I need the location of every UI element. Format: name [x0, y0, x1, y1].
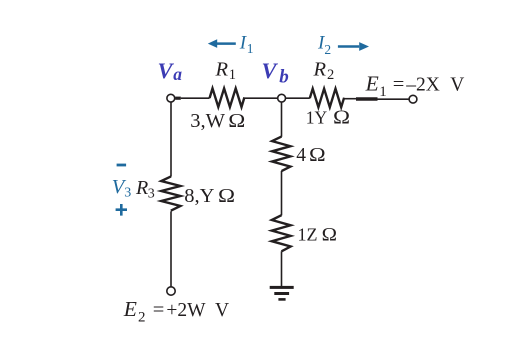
label R3 value 8,Y ohm [184, 184, 235, 207]
svg-text:V: V [262, 58, 279, 83]
svg-text:3: 3 [124, 186, 131, 201]
ground [270, 286, 294, 301]
label voltage V3 with polarity [112, 164, 131, 216]
svg-text:E: E [365, 72, 379, 96]
svg-text:8,Y: 8,Y [184, 185, 214, 207]
svg-text:1: 1 [379, 84, 387, 100]
node E2 terminal [167, 287, 175, 295]
svg-text:1: 1 [247, 41, 254, 56]
svg-text:V: V [158, 58, 175, 83]
resistor R2 [310, 59, 344, 108]
wire [244, 97, 278, 99]
label value 1Z ohm [298, 225, 337, 246]
node Vb [262, 58, 289, 102]
svg-text:3,W: 3,W [190, 110, 225, 132]
svg-text:Ω: Ω [322, 225, 337, 246]
node Va [158, 58, 183, 102]
svg-text:1: 1 [229, 67, 236, 83]
resistor R1 [210, 59, 245, 107]
svg-text:R: R [313, 59, 327, 81]
svg-text:=: = [153, 299, 165, 321]
svg-text:Ω: Ω [228, 109, 245, 132]
wire [175, 97, 209, 100]
resistor R5 (1Z ohm) [272, 215, 291, 251]
label R1 value 3,W ohm [190, 109, 245, 132]
label source E2 = +2W V [123, 297, 229, 326]
wire [281, 251, 283, 286]
svg-text:=: = [393, 74, 405, 96]
svg-text:Ω: Ω [333, 106, 350, 129]
svg-text:Ω: Ω [309, 143, 326, 166]
svg-text:3: 3 [148, 187, 155, 202]
svg-text:+2W: +2W [166, 300, 206, 321]
wire [170, 211, 172, 286]
current arrow I2 [317, 33, 369, 58]
svg-text:1Z: 1Z [298, 225, 318, 245]
svg-text:a: a [173, 64, 182, 84]
svg-text:2: 2 [138, 310, 146, 326]
svg-text:2: 2 [327, 67, 334, 83]
svg-text:V: V [450, 75, 464, 96]
svg-text:4: 4 [296, 145, 306, 166]
svg-text:R: R [135, 177, 148, 199]
wire [281, 171, 283, 215]
label R2 value 1Y ohm [306, 106, 350, 129]
wire [344, 98, 409, 101]
svg-text:V: V [215, 300, 229, 321]
wire [286, 97, 310, 99]
svg-text:b: b [279, 66, 289, 87]
wire [281, 102, 283, 137]
resistor R3 [135, 176, 180, 210]
svg-text:1Y: 1Y [306, 107, 328, 127]
svg-text:R: R [215, 59, 229, 81]
svg-text:E: E [123, 297, 137, 321]
svg-text:–2X: –2X [405, 75, 440, 96]
label value 4 ohm [296, 143, 325, 166]
label source E1 = -2X V [365, 72, 465, 101]
svg-text:2: 2 [324, 42, 331, 57]
current arrow I1 [208, 32, 254, 55]
resistor R4 (4 ohm) [272, 137, 290, 172]
node E1 terminal [409, 95, 417, 103]
svg-text:Ω: Ω [218, 184, 235, 207]
wire [170, 102, 172, 176]
